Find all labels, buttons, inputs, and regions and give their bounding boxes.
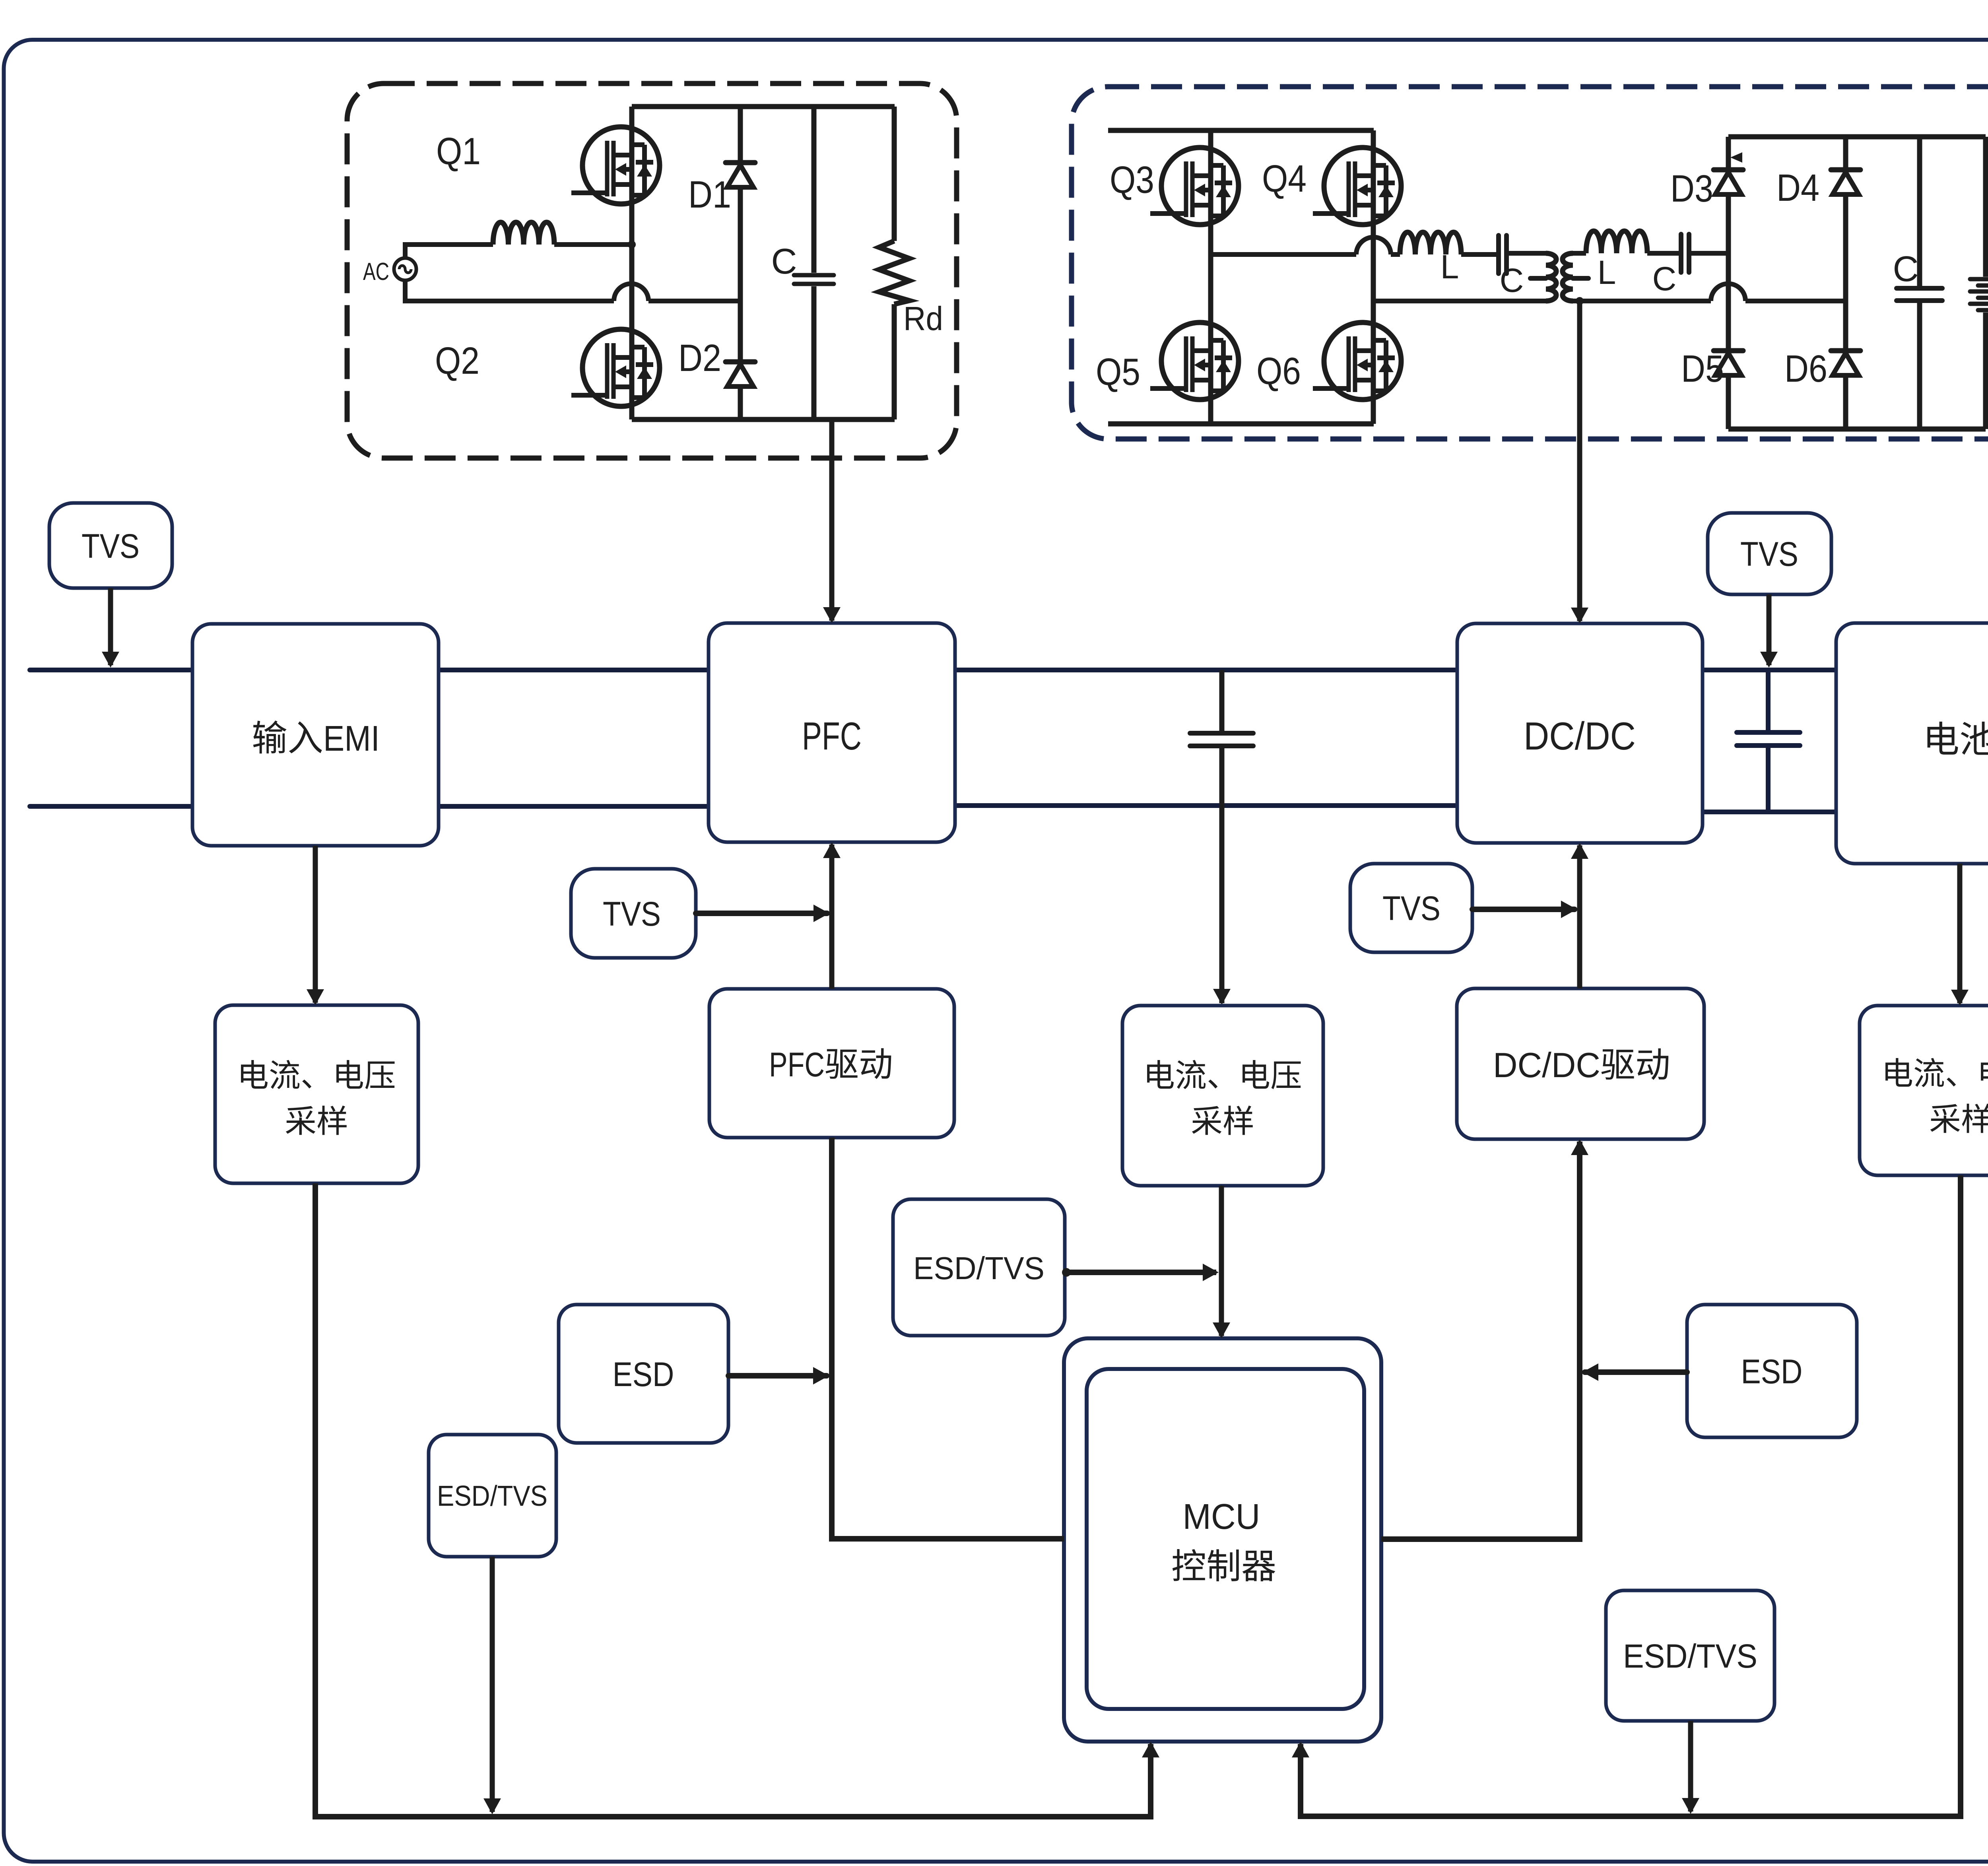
svg-text:D1: D1 xyxy=(688,173,731,216)
transistor Q3 (MOSFET symbol) xyxy=(1150,148,1239,225)
wire hop: arc over right leg xyxy=(1356,237,1391,255)
svg-text:ESD: ESD xyxy=(613,1355,674,1394)
wire: sampling2 down to MCU top with arrow xyxy=(1213,1186,1230,1338)
svg-text:TVS: TVS xyxy=(603,895,661,933)
wire: rectifier bottom conductor xyxy=(1728,427,1986,432)
dashed box: CLLC DC/DC power stage schematic xyxy=(1072,87,1988,439)
wire: MCU right to DC/DC drive bottom with arrow xyxy=(1381,1139,1588,1539)
svg-text:Rd: Rd xyxy=(903,300,943,337)
block: TVS (PFC gate) with arrow to PFC drive line xyxy=(571,869,829,958)
wire: sampling1 down, bottom run, up into MCU bottom-left with arrow xyxy=(315,1183,1159,1817)
wire: PFC circuit bottom conductor xyxy=(632,417,895,422)
capacitor C branch vertical with plates xyxy=(794,107,834,419)
block: PFC xyxy=(709,623,955,842)
small arrow above D3 xyxy=(1730,152,1742,163)
block: ESD (right, DC/DC drive) with arrow xyxy=(1582,1305,1857,1437)
diode D1 xyxy=(726,163,755,187)
svg-text:D5: D5 xyxy=(1681,348,1724,390)
svg-text:L: L xyxy=(1441,248,1459,285)
wire: PFC half-bridge vertical (Q1/Q2 leg) xyxy=(629,107,635,419)
battery symbol xyxy=(1970,137,1988,429)
transistor Q1 (MOSFET symbol) xyxy=(571,127,660,204)
block: ESD/TVS (bottom right) with arrow down xyxy=(1606,1590,1774,1814)
block: TVS (top-left, AC input) with arrow to top rail xyxy=(49,503,172,668)
diode D3 xyxy=(1714,170,1743,194)
svg-text:DC/DC: DC/DC xyxy=(1524,714,1636,758)
wire: AC bottom lead with hop over half-bridge leg to D1/D2 midpoint xyxy=(405,280,740,301)
transistor Q2 (MOSFET symbol) xyxy=(571,329,660,406)
svg-text:Q2: Q2 xyxy=(435,340,480,382)
svg-text:C: C xyxy=(1652,260,1677,297)
svg-text:D4: D4 xyxy=(1776,167,1819,209)
inductor: resonant L primary xyxy=(1400,232,1461,254)
transformer: primary and secondary coils with center stubs xyxy=(1530,253,1588,301)
wire: PFC circuit top conductor xyxy=(632,104,895,109)
node: inductor junction on half-bridge leg xyxy=(628,241,636,249)
wire: L secondary to series C secondary xyxy=(1647,251,1679,256)
diode D6 xyxy=(1831,351,1860,375)
wire: secondary bottom with hop over D3/D5 branch to D4/D6 branch xyxy=(1573,299,1846,303)
capacitor: output filter C vertical with plates xyxy=(1897,137,1942,429)
wire: DC/DC circuit tap down to DC/DC block with arrow xyxy=(1571,439,1588,623)
svg-text:MCU: MCU xyxy=(1183,1497,1260,1537)
wire: PFC circuit tap down to PFC block with arrow xyxy=(823,419,841,623)
inductor: PFC boost inductor xyxy=(493,222,554,245)
wire: bridge left leg vertical (Q3/Q5) xyxy=(1208,130,1213,424)
wire: primary bottom return to right-leg midpoint xyxy=(1373,299,1546,303)
wire: C primary to transformer xyxy=(1509,251,1546,256)
wire: secondary top to resonant tank secondary xyxy=(1573,251,1586,256)
transistor Q4 (MOSFET symbol) xyxy=(1313,148,1401,225)
capacitor: series resonant C primary xyxy=(1499,235,1507,274)
wire: top bus rail segments xyxy=(30,668,1836,672)
svg-text:PFC: PFC xyxy=(802,714,862,758)
svg-text:ESD: ESD xyxy=(1741,1353,1803,1391)
diode D2 xyxy=(726,362,755,386)
svg-text:Q3: Q3 xyxy=(1110,159,1154,201)
wire hop: arc over rectifier branch xyxy=(1711,283,1745,301)
capacitor: output bus capacitor (between DC/DC and battery) xyxy=(1737,670,1800,812)
block: battery (电池) xyxy=(1836,623,1988,864)
wire: C secondary to rectifier D3/D5 branch xyxy=(1691,251,1728,256)
wire: L to series C primary xyxy=(1461,252,1496,257)
wire: rectifier branch D4/D6 vertical xyxy=(1843,137,1848,429)
wire: bottom bus rail segments xyxy=(30,806,1836,812)
svg-text:C: C xyxy=(1500,262,1524,299)
block: TVS (DC/DC gate) with arrow to DC/DC drive line xyxy=(1350,864,1577,952)
svg-text:D3: D3 xyxy=(1670,167,1713,210)
svg-text:ESD/TVS: ESD/TVS xyxy=(913,1250,1044,1286)
block: input EMI (输入EMI) xyxy=(192,624,439,846)
block: ESD (left, PFC drive) with arrow xyxy=(559,1305,829,1443)
transistor Q6 (MOSFET symbol) xyxy=(1313,322,1401,400)
svg-text:EMI: EMI xyxy=(323,719,380,759)
resistor Rd branch with zigzag xyxy=(879,107,909,419)
wire: sampling3 down, bottom run, up into MCU bottom-right with arrow xyxy=(1292,1175,1961,1816)
dashed box: PFC totem-pole power stage schematic xyxy=(347,83,957,458)
svg-text:DC/DC: DC/DC xyxy=(1493,1045,1600,1085)
wire: PFC drive down then right into MCU left xyxy=(832,1138,1064,1539)
svg-text:TVS: TVS xyxy=(82,527,140,565)
wire: inductor to Q1/Q2 midpoint xyxy=(554,242,632,247)
svg-text:Q5: Q5 xyxy=(1096,351,1140,393)
svg-text:C: C xyxy=(1893,249,1919,289)
capacitor: DC bus capacitor (between PFC and DC/DC) with wire down to sampling xyxy=(1190,670,1253,1005)
block: current/voltage sampling 3 (电流、电压采样, battery side) xyxy=(1860,1006,1988,1175)
capacitor: series resonant C secondary xyxy=(1681,234,1689,272)
node: tap junction xyxy=(1576,297,1584,305)
AC source symbol xyxy=(394,258,416,280)
svg-text:ESD/TVS: ESD/TVS xyxy=(437,1480,547,1512)
wire hop: arc over vertical xyxy=(614,283,648,301)
svg-text:PFC: PFC xyxy=(769,1046,825,1084)
svg-text:TVS: TVS xyxy=(1740,535,1798,573)
wire: AC top lead to boost inductor xyxy=(405,245,493,258)
block: MCU controller (MCU 控制器) double rounded box xyxy=(1064,1338,1381,1742)
transistor Q5 (MOSFET symbol) xyxy=(1150,322,1239,400)
svg-text:D6: D6 xyxy=(1784,348,1827,390)
wire: bridge right leg vertical (Q4/Q6) xyxy=(1371,130,1376,424)
svg-text:Q1: Q1 xyxy=(436,130,481,173)
svg-text:L: L xyxy=(1598,254,1616,291)
diode D4 xyxy=(1831,170,1860,194)
wire: battery block down to sampling3 with arrow xyxy=(1951,864,1969,1006)
svg-text:AC: AC xyxy=(363,258,389,285)
svg-text:TVS: TVS xyxy=(1382,889,1441,928)
block: current/voltage sampling 1 (电流、电压采样, input side) xyxy=(215,1005,418,1183)
wire: bridge top conductor xyxy=(1108,128,1374,133)
svg-text:Q6: Q6 xyxy=(1256,350,1301,392)
wire: DC/DC tap from secondary down out of box xyxy=(1577,301,1582,439)
svg-text:C: C xyxy=(771,242,797,282)
block: ESD/TVS (middle, sampling to MCU) with arrow xyxy=(893,1199,1219,1336)
wire: rectifier branch D3/D5 vertical xyxy=(1726,137,1731,429)
svg-text:ESD/TVS: ESD/TVS xyxy=(1623,1637,1757,1675)
wire: left-leg midpoint with hop over right leg to resonant tank xyxy=(1211,252,1400,257)
block: TVS (battery side) with arrow to top rail xyxy=(1708,513,1831,668)
svg-text:D2: D2 xyxy=(678,337,721,379)
wire: rectifier top conductor xyxy=(1728,134,1986,140)
wire: PFC drive up to PFC block with arrow xyxy=(823,842,841,989)
wire: DC/DC drive up to DC/DC block with arrow xyxy=(1571,843,1588,988)
block: current/voltage sampling 2 (电流、电压采样, DC bus) xyxy=(1122,1006,1323,1186)
inductor: resonant L secondary xyxy=(1586,231,1647,253)
svg-text:Q4: Q4 xyxy=(1262,157,1307,200)
block: DC/DC driver (DC/DC驱动) xyxy=(1457,988,1704,1139)
block: PFC driver (PFC驱动) xyxy=(709,989,954,1138)
block: DC/DC xyxy=(1457,623,1703,843)
wire: D1/D2 branch vertical xyxy=(738,107,743,419)
wire: EMI block to sampling1 with arrow xyxy=(307,846,324,1005)
diode D5 xyxy=(1714,351,1743,375)
wire: bridge bottom conductor xyxy=(1108,421,1374,427)
block: ESD/TVS (bottom left) with arrow down xyxy=(429,1435,556,1814)
